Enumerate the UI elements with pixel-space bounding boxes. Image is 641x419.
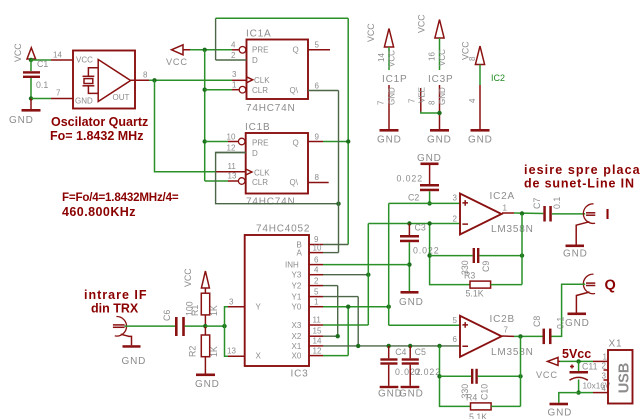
svg-text:74HC74N: 74HC74N bbox=[246, 103, 296, 114]
svg-text:IC1A: IC1A bbox=[246, 29, 271, 40]
svg-text:8: 8 bbox=[468, 56, 477, 61]
pin 2 USB stub bbox=[602, 362, 609, 371]
ground USB bbox=[548, 403, 573, 419]
wire C8 to Q jack bbox=[552, 284, 586, 336]
capacitor C6 bbox=[162, 301, 205, 336]
svg-text:IC2B: IC2B bbox=[490, 314, 515, 325]
capacitor C4 bbox=[380, 346, 421, 386]
svg-text:C10: C10 bbox=[480, 384, 490, 400]
ground Q jack bbox=[565, 313, 590, 330]
svg-text:1: 1 bbox=[503, 204, 508, 213]
node junction CLR IC1A bbox=[203, 88, 207, 92]
svg-text:IC2A: IC2A bbox=[490, 191, 515, 202]
node junction C11 top bbox=[576, 359, 580, 363]
svg-text:3: 3 bbox=[602, 372, 607, 381]
svg-text:Q: Q bbox=[293, 139, 299, 148]
node junction osc output bbox=[152, 78, 156, 82]
svg-text:intrare IF: intrare IF bbox=[84, 288, 148, 302]
svg-text:12: 12 bbox=[227, 144, 236, 153]
svg-text:C7: C7 bbox=[532, 198, 542, 209]
wire VCC to pin14 bbox=[31, 59, 51, 61]
svg-text:16: 16 bbox=[428, 52, 437, 61]
svg-text:PRE: PRE bbox=[252, 139, 268, 148]
node junction VCC/C1 bbox=[29, 58, 33, 62]
svg-text:VCC: VCC bbox=[438, 49, 447, 66]
svg-text:2: 2 bbox=[314, 277, 319, 286]
svg-text:C6: C6 bbox=[162, 310, 172, 321]
svg-text:GND: GND bbox=[417, 153, 442, 164]
power symbol IC3P VCC bbox=[417, 14, 448, 70]
svg-text:7: 7 bbox=[56, 89, 61, 98]
svg-text:CLR: CLR bbox=[252, 86, 268, 95]
svg-text:13: 13 bbox=[228, 172, 237, 181]
node junction Y3 bbox=[366, 273, 370, 277]
svg-text:VCC: VCC bbox=[183, 268, 193, 287]
svg-text:X2: X2 bbox=[292, 332, 302, 341]
pin 8 Q\ IC1B stub bbox=[308, 173, 329, 183]
svg-text:12: 12 bbox=[313, 347, 322, 356]
svg-text:C4: C4 bbox=[395, 347, 406, 357]
capacitor C1 bbox=[23, 59, 48, 99]
resistor R2 bbox=[187, 326, 219, 373]
svg-text:5: 5 bbox=[314, 288, 319, 297]
ground intrare jack bbox=[122, 345, 147, 367]
pin 4 Y3 bbox=[309, 266, 368, 275]
node junction Y0 to +input vertical bbox=[387, 305, 391, 309]
pin 6 INH bbox=[309, 256, 409, 265]
op-amp IC2A bbox=[453, 191, 534, 235]
svg-text:4: 4 bbox=[231, 41, 236, 50]
wire top horizontal feedback bbox=[216, 17, 349, 19]
svg-text:X1: X1 bbox=[292, 342, 302, 351]
op-amp IC2B bbox=[453, 314, 534, 358]
pin 14 X1 bbox=[309, 337, 460, 346]
wire Y0 to X0 vertical bbox=[347, 306, 349, 356]
node junction IC1B Q bbox=[346, 139, 350, 143]
svg-text:INH: INH bbox=[285, 261, 299, 270]
pin 3 CLK IC1A bbox=[232, 70, 247, 81]
svg-text:14: 14 bbox=[313, 337, 322, 346]
wire node to Y pin bbox=[225, 307, 229, 326]
connector X1 USB box bbox=[608, 339, 633, 404]
svg-text:5.1K: 5.1K bbox=[466, 289, 484, 299]
ground R2 bbox=[195, 374, 220, 391]
svg-text:1: 1 bbox=[314, 298, 319, 307]
svg-text:F=Fo/4=1.8432MHz/4=: F=Fo/4=1.8432MHz/4= bbox=[62, 191, 179, 204]
power VCC arrow 5V bbox=[536, 357, 560, 380]
wire IC1B D routing to node bbox=[216, 153, 339, 204]
pin 6 Q\ IC1A bbox=[308, 82, 339, 91]
IC1P GND pin bbox=[377, 85, 397, 129]
pin 13 CLR bubble IC1B bbox=[228, 172, 246, 185]
svg-text:Y2: Y2 bbox=[292, 282, 302, 291]
resistor R4 bbox=[466, 393, 521, 419]
svg-text:4: 4 bbox=[314, 266, 319, 275]
ground C3 bbox=[399, 291, 424, 308]
svg-text:8: 8 bbox=[315, 173, 320, 182]
node junction X2 bbox=[336, 334, 340, 338]
node junction C4 bbox=[387, 344, 391, 348]
svg-text:GND: GND bbox=[122, 356, 147, 367]
capacitor C5 bbox=[402, 346, 441, 386]
svg-text:GND: GND bbox=[399, 389, 424, 400]
svg-text:5Vcc: 5Vcc bbox=[562, 347, 591, 361]
svg-text:2: 2 bbox=[231, 51, 236, 60]
node junction Y0/X0 bbox=[346, 305, 350, 309]
pin 1 output IC2A bbox=[502, 212, 514, 214]
svg-text:14: 14 bbox=[53, 51, 62, 60]
capacitor C9 bbox=[430, 248, 522, 275]
svg-text:C11: C11 bbox=[582, 362, 598, 372]
ground IC2 bbox=[468, 129, 493, 146]
svg-text:IC3: IC3 bbox=[291, 369, 309, 380]
svg-text:7: 7 bbox=[504, 326, 509, 335]
pin 3 USB stub bbox=[602, 372, 609, 381]
svg-text:10: 10 bbox=[313, 244, 322, 253]
node junction C9 left bbox=[427, 253, 431, 257]
svg-text:CLK: CLK bbox=[254, 168, 270, 177]
capacitor C8 bbox=[532, 316, 566, 344]
svg-text:1: 1 bbox=[603, 353, 608, 362]
power symbol IC1P VCC bbox=[366, 23, 397, 70]
svg-text:din TRX: din TRX bbox=[91, 302, 139, 316]
pin 12 X0 bbox=[309, 347, 348, 356]
svg-text:Q: Q bbox=[605, 278, 616, 294]
svg-text:R4: R4 bbox=[466, 393, 477, 403]
oscillator QG1 box bbox=[73, 51, 135, 109]
pin 1 Y0 bbox=[309, 298, 389, 307]
svg-text:3: 3 bbox=[453, 194, 458, 203]
node junction IC2B output bbox=[518, 334, 522, 338]
svg-text:460.800KHz: 460.800KHz bbox=[62, 205, 136, 219]
svg-text:PRE: PRE bbox=[252, 46, 268, 55]
wire VCC rail down to CLR/PRE pins bbox=[204, 50, 206, 181]
svg-text:X0: X0 bbox=[292, 352, 302, 361]
svg-text:iesire spre placa: iesire spre placa bbox=[524, 163, 641, 177]
svg-text:VCC: VCC bbox=[536, 370, 558, 380]
svg-text:Q\: Q\ bbox=[290, 86, 299, 95]
capacitor C11 electrolytic bbox=[570, 361, 611, 392]
node junction to Y/X bbox=[222, 324, 226, 328]
svg-text:1K: 1K bbox=[209, 305, 219, 316]
ground C5 bbox=[399, 386, 424, 400]
svg-text:Y3: Y3 bbox=[292, 271, 302, 280]
svg-text:Y1: Y1 bbox=[292, 293, 302, 302]
wire osc out down to IC1B CLK bbox=[155, 80, 216, 172]
ground IC3P bbox=[427, 129, 452, 146]
svg-text:C9: C9 bbox=[481, 261, 491, 272]
capacitor C2 bbox=[397, 165, 440, 203]
svg-text:VCC: VCC bbox=[417, 14, 427, 33]
svg-text:0.1: 0.1 bbox=[556, 317, 566, 329]
power VCC above R1 bbox=[183, 268, 209, 288]
wire IC1A D feedback vertical bbox=[215, 18, 217, 60]
wire to PRE IC1B bbox=[205, 141, 228, 143]
svg-text:74HC74N: 74HC74N bbox=[246, 197, 296, 208]
svg-text:GND: GND bbox=[75, 97, 93, 106]
svg-text:IC1B: IC1B bbox=[245, 122, 270, 133]
svg-text:GND: GND bbox=[399, 297, 424, 308]
node junction C6/R1/R2 bbox=[203, 324, 207, 328]
svg-text:GND: GND bbox=[438, 87, 447, 105]
svg-text:A: A bbox=[297, 249, 303, 258]
ground below C1 bbox=[9, 99, 41, 127]
svg-text:VEE: VEE bbox=[418, 87, 427, 103]
node junction feedback on -input bbox=[427, 221, 431, 225]
svg-text:Oscilator Quartz: Oscilator Quartz bbox=[51, 115, 148, 129]
svg-text:8: 8 bbox=[428, 100, 437, 105]
capacitor C3 bbox=[400, 223, 440, 292]
svg-text:IC1P: IC1P bbox=[382, 74, 407, 85]
wire to USB pin4 bbox=[579, 384, 608, 393]
node junction C2 on +input bbox=[427, 201, 431, 205]
pin 8 oscillator output bbox=[131, 71, 149, 81]
svg-text:Y0: Y0 bbox=[292, 303, 302, 312]
svg-text:Y: Y bbox=[256, 303, 262, 312]
svg-text:1: 1 bbox=[232, 81, 237, 90]
ground C4 bbox=[378, 386, 403, 400]
wire +input IC2B horizontal bbox=[389, 324, 460, 326]
flip-flop IC1B bbox=[245, 122, 308, 208]
svg-text:C8: C8 bbox=[532, 316, 542, 327]
node junction VEE/GND bbox=[437, 111, 441, 115]
capacitor C10 bbox=[440, 369, 521, 400]
wire Y2 to X2 vertical bbox=[337, 286, 339, 337]
node junction INH/C3 ground wire bbox=[407, 262, 411, 266]
wire +input IC2A bbox=[389, 202, 460, 204]
svg-text:LM358N: LM358N bbox=[491, 224, 534, 235]
svg-text:D: D bbox=[252, 149, 258, 158]
svg-text:0.1: 0.1 bbox=[552, 197, 562, 209]
svg-text:GND: GND bbox=[195, 379, 220, 390]
svg-text:GND: GND bbox=[565, 318, 590, 329]
wire long vertical IC1B Q to mux B bbox=[347, 18, 349, 244]
node junction C3 top bbox=[407, 221, 411, 225]
svg-text:C2: C2 bbox=[408, 193, 419, 203]
IC3P GND pin bbox=[428, 85, 448, 129]
svg-text:GND: GND bbox=[388, 87, 397, 105]
svg-text:GND: GND bbox=[468, 135, 493, 146]
multiplexer IC3 74HC4052 box bbox=[245, 224, 311, 380]
wire to CLR IC1A bbox=[205, 89, 232, 91]
ground above C2 bbox=[417, 153, 442, 165]
svg-text:VCC: VCC bbox=[166, 57, 188, 67]
svg-text:R3: R3 bbox=[464, 271, 475, 281]
pin 2 D IC1A bbox=[216, 51, 247, 60]
svg-text:2: 2 bbox=[453, 215, 458, 224]
svg-text:VCC: VCC bbox=[13, 43, 23, 62]
svg-text:I: I bbox=[606, 207, 610, 223]
svg-text:GND: GND bbox=[563, 249, 588, 260]
svg-text:3: 3 bbox=[232, 70, 237, 79]
wire osc out to IC1A CLK bbox=[149, 79, 232, 81]
node junction C11 bottom bbox=[576, 390, 580, 394]
svg-text:5: 5 bbox=[453, 316, 458, 325]
svg-text:6: 6 bbox=[315, 82, 320, 91]
pin 15 X2 bbox=[309, 327, 338, 337]
pin 9 Q IC1B bbox=[308, 133, 348, 142]
pin 5 Y1 bbox=[309, 288, 358, 297]
svg-text:15: 15 bbox=[313, 327, 322, 336]
svg-text:C1: C1 bbox=[37, 59, 48, 69]
wire jack to C6 bbox=[125, 325, 176, 327]
pin 5 Q IC1A stub bbox=[308, 41, 330, 50]
svg-text:13: 13 bbox=[227, 347, 236, 356]
pin 9 B bbox=[309, 235, 348, 245]
wire VCC to PRE net bbox=[190, 49, 232, 51]
connector I jack bbox=[576, 204, 595, 245]
node junction C10 left bbox=[437, 374, 441, 378]
svg-text:5.1K: 5.1K bbox=[469, 412, 487, 419]
connector intrare jack bbox=[113, 316, 132, 345]
flip-flop IC1A bbox=[246, 29, 308, 115]
ground IC1P bbox=[377, 129, 402, 146]
node junction IC2A output bbox=[520, 211, 524, 215]
pin 11 CLK IC1B bbox=[216, 162, 246, 172]
svg-text:GND: GND bbox=[9, 115, 34, 126]
svg-text:8: 8 bbox=[143, 71, 148, 80]
svg-text:0.022: 0.022 bbox=[413, 246, 440, 256]
svg-text:0.1: 0.1 bbox=[36, 80, 48, 90]
wire C11 to ground bbox=[559, 393, 579, 403]
svg-text:7: 7 bbox=[377, 100, 386, 105]
ground I jack bbox=[563, 245, 588, 260]
pin 4 PRE bubble IC1A bbox=[231, 41, 246, 54]
pin 1 USB bbox=[593, 353, 608, 362]
svg-text:5: 5 bbox=[315, 41, 320, 50]
node junction VCC/PRE bbox=[203, 48, 207, 52]
pin 11 X3 bbox=[309, 316, 368, 326]
IC3P VEE pin bbox=[408, 87, 440, 113]
pin 2 Y2 bbox=[309, 277, 338, 286]
pin 10 A bbox=[309, 244, 339, 253]
pin 7 output IC2B bbox=[502, 335, 514, 337]
wire to CLR IC1B bbox=[205, 180, 228, 182]
svg-text:GND: GND bbox=[548, 408, 573, 419]
svg-text:X1: X1 bbox=[609, 339, 623, 350]
svg-text:4: 4 bbox=[602, 384, 607, 393]
node junction C10 right bbox=[518, 374, 522, 378]
oscillator amplifier triangle bbox=[98, 60, 130, 102]
wire IC2A feedback left vertical bbox=[430, 224, 470, 285]
power symbol IC2 VCC bbox=[461, 41, 485, 85]
wire node to X pin bbox=[225, 326, 229, 356]
svg-text:CLK: CLK bbox=[254, 76, 270, 85]
power VCC symbol top-left bbox=[13, 43, 36, 62]
svg-text:7: 7 bbox=[408, 98, 417, 103]
wire IC1A Q\ vertical to mux A bbox=[338, 91, 340, 253]
wire X3/Y3 up to -input IC2A bbox=[367, 224, 369, 326]
svg-text:CLR: CLR bbox=[252, 178, 268, 187]
node junction PRE IC1B bbox=[203, 139, 207, 143]
svg-text:6: 6 bbox=[453, 335, 458, 344]
svg-text:10x16V: 10x16V bbox=[583, 382, 611, 391]
svg-text:Q: Q bbox=[293, 46, 299, 55]
svg-text:9: 9 bbox=[315, 133, 320, 142]
pin 3 Y left bbox=[228, 298, 245, 307]
svg-text:C5: C5 bbox=[415, 347, 426, 357]
resistor R3 bbox=[464, 271, 522, 299]
pin 1 CLR bubble IC1A bbox=[232, 81, 246, 93]
svg-text:14: 14 bbox=[377, 53, 386, 62]
resistor R1 bbox=[190, 288, 219, 326]
svg-text:X: X bbox=[256, 352, 262, 361]
svg-text:10: 10 bbox=[227, 133, 236, 142]
connector Q jack bbox=[576, 274, 595, 312]
svg-text:R2: R2 bbox=[187, 346, 197, 357]
pin 10 PRE bubble IC1B bbox=[227, 133, 246, 145]
svg-text:IC3P: IC3P bbox=[428, 74, 453, 85]
node junction Y1/X1 bbox=[356, 344, 360, 348]
wire IC2B feedback left vertical bbox=[440, 346, 471, 407]
svg-text:OUT: OUT bbox=[113, 93, 130, 102]
svg-text:6: 6 bbox=[314, 256, 319, 265]
svg-text:1K: 1K bbox=[209, 346, 219, 357]
svg-text:11: 11 bbox=[228, 162, 237, 171]
svg-text:VCC: VCC bbox=[388, 50, 397, 67]
svg-text:X3: X3 bbox=[292, 321, 302, 330]
power VCC arrow left of IC1A bbox=[166, 45, 190, 67]
IC2 GND pin bbox=[468, 85, 480, 129]
wire junction to pin7 bbox=[31, 98, 51, 100]
svg-text:USB: USB bbox=[617, 363, 633, 394]
wire divider node to mux bbox=[205, 325, 224, 327]
pin 12 D IC1B bbox=[216, 144, 246, 153]
node junction IC2B feedback bbox=[437, 344, 441, 348]
svg-text:VCC: VCC bbox=[76, 56, 93, 65]
svg-text:0.022: 0.022 bbox=[415, 367, 442, 377]
svg-text:Q\: Q\ bbox=[290, 178, 299, 187]
svg-text:Fo= 1.8432 MHz: Fo= 1.8432 MHz bbox=[50, 129, 143, 143]
wire +input rail vertical bbox=[388, 203, 390, 325]
svg-text:11: 11 bbox=[313, 316, 322, 325]
crystal inside oscillator bbox=[83, 68, 99, 94]
svg-text:2: 2 bbox=[602, 362, 607, 371]
svg-text:0.022: 0.022 bbox=[397, 174, 424, 184]
pin 13 X left bbox=[227, 347, 245, 357]
node junction C5 bbox=[408, 344, 412, 348]
wire IC2A output feedback vertical bbox=[521, 214, 523, 285]
svg-text:LM358N: LM358N bbox=[491, 347, 534, 358]
svg-text:C3: C3 bbox=[415, 223, 426, 233]
wire Y1 to X1 vertical bbox=[357, 297, 359, 346]
svg-text:3: 3 bbox=[229, 298, 234, 307]
svg-text:IC2: IC2 bbox=[491, 73, 505, 83]
svg-text:D: D bbox=[252, 56, 258, 65]
node junction C1/GND bbox=[29, 96, 33, 100]
wire IC2B output feedback vertical bbox=[520, 336, 522, 406]
svg-text:4: 4 bbox=[468, 98, 477, 103]
pin 14 of oscillator bbox=[51, 51, 73, 61]
svg-text:GND: GND bbox=[427, 135, 452, 146]
wire VCC to USB pin1 bbox=[560, 360, 593, 362]
svg-text:R1: R1 bbox=[190, 305, 200, 316]
wire -input IC2A bbox=[368, 223, 460, 225]
node junction D/Q feedback bbox=[336, 202, 340, 206]
svg-text:de sunet-Line IN: de sunet-Line IN bbox=[524, 177, 635, 191]
svg-text:GND: GND bbox=[377, 135, 402, 146]
svg-text:VCC: VCC bbox=[366, 23, 376, 42]
svg-text:74HC4052: 74HC4052 bbox=[256, 224, 310, 235]
node junction C9 right bbox=[520, 253, 524, 257]
capacitor C7 bbox=[532, 197, 585, 222]
pin 7 of oscillator bbox=[51, 89, 73, 99]
